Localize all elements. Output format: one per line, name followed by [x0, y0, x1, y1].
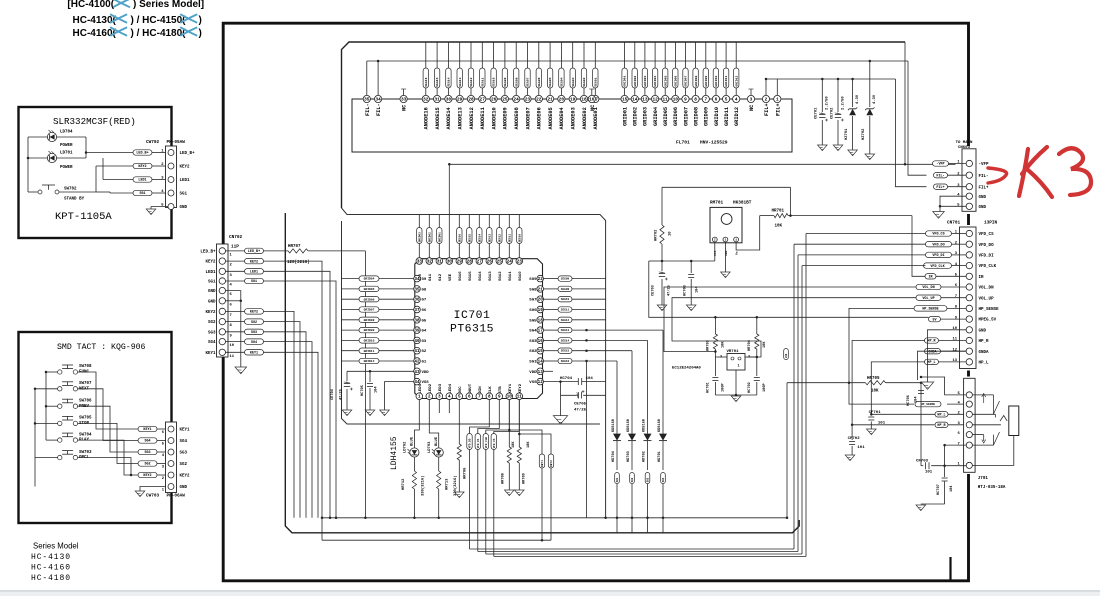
svg-text:SEG02: SEG02: [582, 77, 586, 86]
wire KEY2 pin: [518, 400, 520, 448]
wire: [157, 428, 168, 430]
net label LED1: [245, 269, 264, 274]
svg-text:CE703: CE703: [652, 285, 656, 296]
net label FIL+: [934, 184, 948, 189]
wire: [544, 298, 559, 300]
wire CE705 row: [561, 394, 577, 396]
ground: [916, 505, 926, 511]
wire LED_B+ net: [264, 250, 289, 252]
wire VOL_UP: [672, 298, 916, 357]
wire label col: [418, 215, 420, 228]
net label VFD_DO: [926, 242, 952, 247]
wire jack pin5: [921, 377, 966, 395]
pin 2 IC701: [426, 393, 433, 400]
svg-text:S01: S01: [616, 477, 619, 482]
wire jack pin6: [972, 434, 983, 436]
ground: [921, 382, 933, 389]
svg-text:28: 28: [467, 260, 473, 265]
svg-text:37: 37: [414, 308, 420, 313]
svg-text:31: 31: [434, 98, 440, 103]
svg-text:HR704: HR704: [748, 339, 752, 351]
junction: [448, 163, 451, 166]
svg-text:11: 11: [230, 355, 235, 359]
svg-text:104: 104: [950, 485, 954, 492]
svg-text:GRID08: GRID08: [364, 319, 375, 322]
svg-text:13: 13: [538, 370, 544, 375]
svg-text:10: 10: [669, 231, 673, 236]
net label S03: [645, 473, 650, 484]
svg-text:NEXT: NEXT: [79, 387, 90, 391]
diode KDS160 HD703: [631, 351, 633, 434]
svg-text:GRID03: GRID03: [643, 107, 649, 126]
wire: [226, 270, 245, 272]
svg-text:29: 29: [457, 98, 463, 103]
svg-text:HR707: HR707: [288, 245, 301, 249]
pin 7 J701: [966, 442, 972, 448]
svg-text:SG10: SG10: [519, 271, 523, 281]
svg-text:HC-4130: HC-4130: [31, 553, 71, 562]
svg-text:GRID07: GRID07: [683, 107, 689, 126]
ground: [867, 429, 877, 435]
wire: [785, 349, 787, 360]
svg-text:SG2: SG2: [144, 463, 150, 467]
net label GRID12: [734, 68, 739, 88]
svg-text:SEG14: SEG14: [447, 77, 451, 86]
svg-text:18: 18: [538, 318, 544, 323]
svg-text:2.2/50: 2.2/50: [825, 96, 830, 110]
wire anode col ANODE10: [493, 42, 495, 68]
wire: [920, 383, 922, 466]
svg-text:HP_L: HP_L: [937, 414, 945, 418]
junction: [321, 517, 324, 520]
svg-text:19: 19: [538, 308, 544, 313]
svg-text:KEY2: KEY2: [250, 311, 258, 315]
svg-text:HP_SENSE: HP_SENSE: [921, 403, 936, 406]
svg-text:KEY2: KEY2: [205, 261, 216, 265]
pin 7 CN701: [966, 295, 972, 301]
svg-text:CE705: CE705: [574, 403, 587, 407]
wire: [226, 260, 245, 262]
pin 9 IC701: [496, 393, 503, 400]
pin 35 FL701: [363, 95, 370, 102]
svg-text:GRID11: GRID11: [364, 350, 375, 353]
wire anode col ANODE13: [459, 42, 461, 68]
svg-text:GND: GND: [979, 196, 987, 200]
svg-text:27: 27: [477, 260, 483, 265]
wire CN701 gnd: [928, 330, 967, 382]
svg-text:CE702: CE702: [831, 107, 835, 119]
svg-text:100P: 100P: [763, 383, 767, 392]
svg-text:GND: GND: [979, 206, 987, 210]
svg-text:GRID12: GRID12: [734, 76, 738, 87]
capacitor HC707: [942, 477, 948, 479]
svg-text:SG4: SG4: [529, 330, 537, 334]
svg-text:5: 5: [458, 395, 461, 400]
svg-text:32: 32: [423, 98, 429, 103]
LED LD704: [47, 132, 56, 141]
svg-text:SW703: SW703: [79, 451, 92, 455]
svg-text:SG2: SG2: [251, 321, 257, 325]
svg-text:SG16: SG16: [459, 271, 463, 281]
connector CW702: [166, 146, 177, 208]
pin 1 CN603: [966, 160, 972, 166]
svg-text:) Series Model]: ) Series Model]: [133, 0, 204, 10]
pin Vcc RM701: [712, 237, 717, 242]
resistor HR704: [756, 317, 758, 334]
wire VSS left: [385, 382, 414, 410]
pin 1 CW702: [168, 150, 174, 156]
svg-text:GRID06: GRID06: [674, 76, 678, 87]
pin 1 CW703: [168, 484, 174, 490]
svg-text:VFD_DO: VFD_DO: [469, 438, 472, 448]
wire: [947, 307, 966, 309]
ground: [845, 455, 855, 461]
svg-text:FIL-: FIL-: [936, 174, 944, 178]
svg-text:CW702: CW702: [146, 140, 160, 145]
svg-text:SG1: SG1: [139, 192, 145, 196]
svg-text:J701: J701: [978, 477, 989, 481]
wire pin5 gnd: [151, 206, 168, 208]
svg-text:G5: G5: [422, 319, 427, 323]
wire: [952, 233, 967, 235]
wire data VFD_CS: [494, 400, 520, 434]
junction: [27, 157, 30, 160]
resistor HR703: [714, 317, 716, 334]
wire Vo: [736, 216, 760, 250]
wire: [952, 243, 967, 245]
wire: [616, 484, 618, 533]
svg-text:LED_B+: LED_B+: [136, 152, 148, 156]
svg-text:KEY2: KEY2: [180, 166, 191, 170]
svg-text:PH-06AW: PH-06AW: [167, 494, 186, 499]
svg-text:4.3V: 4.3V: [873, 94, 877, 104]
wire anode col ANODE16: [425, 42, 427, 68]
svg-text:GRID01: GRID01: [622, 107, 628, 126]
svg-text:GRID02: GRID02: [633, 76, 637, 87]
wire grid col GRID02: [634, 42, 636, 68]
svg-text:SG11: SG11: [509, 271, 513, 281]
pin 9 CN701: [966, 316, 972, 322]
pin 6 IC701: [466, 393, 473, 400]
svg-text:FIL+: FIL+: [936, 186, 944, 190]
svg-text:) / HC-4180(: ) / HC-4180(: [131, 28, 187, 39]
net label SEG09: [502, 68, 507, 88]
ground: [833, 145, 843, 151]
junction: [377, 60, 380, 63]
svg-text:KDS160: KDS160: [612, 419, 616, 432]
switch SW706: [58, 404, 62, 408]
wire bus LED_B+: [322, 517, 787, 519]
pin 26 FL701: [490, 95, 497, 102]
svg-text:100P: 100P: [722, 383, 726, 392]
svg-text:HD702: HD702: [642, 451, 646, 462]
wire label col: [498, 215, 500, 228]
svg-text:VFD_CLK: VFD_CLK: [930, 265, 945, 269]
jack contact: [1000, 416, 1007, 422]
wire VDD right: [544, 370, 554, 372]
wire VSS gnd: [560, 382, 562, 416]
svg-text:VEE: VEE: [449, 273, 453, 281]
pin Vo RM701: [734, 237, 739, 242]
svg-text:SG9: SG9: [529, 278, 537, 282]
wire grid col GRID03: [644, 42, 646, 68]
ground: [505, 490, 515, 496]
red K: [1019, 149, 1028, 196]
net label SEG15: [558, 348, 572, 353]
zener HZ701: [852, 79, 854, 107]
svg-text:GRID07: GRID07: [684, 76, 688, 87]
net label KEY2: [245, 258, 264, 263]
pin 32 FL701: [422, 95, 429, 102]
svg-text:104: 104: [375, 386, 379, 393]
wire grid col GRID04: [654, 42, 656, 68]
pin 23 FL701: [524, 95, 531, 102]
svg-text:OPCL: OPCL: [79, 456, 90, 460]
net label S04: [661, 473, 666, 484]
net label GRID06: [673, 68, 678, 88]
svg-text:SW708: SW708: [79, 365, 92, 369]
svg-text:SG12: SG12: [499, 271, 503, 281]
net label L50: [784, 349, 789, 360]
ground: [933, 212, 945, 219]
pin 6 FL701: [712, 95, 719, 102]
wire HR705 feed: [786, 383, 788, 518]
pin 11 CN701: [966, 337, 972, 343]
net label GRID10: [359, 338, 379, 343]
wire SG1 drop: [264, 281, 337, 518]
svg-text:SG4: SG4: [180, 440, 188, 444]
svg-text:ANODE15: ANODE15: [435, 107, 441, 129]
wire: [586, 361, 588, 518]
svg-text:VFD_CS: VFD_CS: [932, 233, 944, 237]
svg-text:VFD_DI: VFD_DI: [932, 254, 944, 258]
svg-text:HR708: HR708: [502, 473, 506, 484]
svg-text:30: 30: [447, 260, 453, 265]
junction: [870, 413, 873, 416]
net label SEG16: [457, 228, 462, 244]
wire: [226, 250, 245, 252]
svg-text:GRID08: GRID08: [693, 107, 699, 126]
svg-text:HR701: HR701: [772, 210, 785, 214]
wire HC707 v: [944, 445, 946, 477]
svg-text:GRID01: GRID01: [623, 76, 627, 87]
junction: [786, 517, 789, 520]
net label SEG05: [547, 68, 552, 88]
svg-text:G4: G4: [422, 330, 427, 334]
connector CN603: [962, 149, 976, 212]
wire jack pin2 tip: [972, 413, 995, 415]
net label GRID09: [703, 68, 708, 88]
junction: [437, 517, 440, 520]
svg-text:6: 6: [468, 395, 471, 400]
svg-text:SG13: SG13: [489, 271, 493, 281]
svg-text:VDD: VDD: [529, 371, 537, 375]
svg-text:L50: L50: [785, 353, 788, 358]
svg-text:GRID10: GRID10: [714, 107, 720, 126]
wire: [952, 254, 967, 256]
svg-text:SG1: SG1: [208, 281, 216, 285]
net label KEY2: [245, 309, 264, 314]
net label SEG12: [558, 317, 572, 322]
net label SEG08: [558, 286, 572, 291]
net label GRID04: [359, 276, 379, 281]
junction: [920, 381, 923, 384]
pin 35 IC701: [414, 286, 421, 293]
svg-text:25: 25: [497, 260, 503, 265]
wire: [948, 413, 966, 415]
pin 41 IC701: [414, 347, 421, 354]
wire: [157, 463, 168, 465]
pin 2 CN702: [219, 258, 225, 264]
svg-text:GRID02: GRID02: [633, 107, 639, 126]
connector J701: [964, 378, 976, 472]
svg-text:STB: STB: [499, 386, 503, 394]
junction: [413, 517, 416, 520]
pin 5 CW702: [168, 204, 174, 210]
wire CN603 gnd: [940, 196, 966, 206]
pin 4 CN603: [966, 193, 972, 199]
junction: [789, 214, 792, 217]
svg-text:SEG09: SEG09: [503, 77, 507, 86]
wire key bus B: [34, 389, 36, 487]
wire jack pin3: [972, 424, 1001, 426]
svg-text:SG6: SG6: [529, 309, 537, 313]
jack switch arrow: [982, 394, 986, 404]
net label VFD_CLK: [483, 434, 488, 450]
svg-text:26: 26: [491, 98, 497, 103]
svg-text:SEG13: SEG13: [458, 77, 462, 86]
wire: [544, 360, 559, 362]
svg-text:10: 10: [952, 327, 957, 331]
net label GRID03: [417, 228, 422, 244]
wire KEY1 pin: [508, 400, 510, 448]
pin 5 CN701: [966, 273, 972, 279]
wire key net drop: [264, 311, 295, 517]
svg-text:MPEG_5V: MPEG_5V: [979, 319, 997, 323]
pin 10 CN701: [966, 327, 972, 333]
svg-text:G8: G8: [422, 288, 427, 292]
wire data VFD_DI: [478, 400, 500, 434]
ground: [365, 410, 375, 416]
junction: [240, 300, 243, 303]
wire HR705 line: [787, 382, 865, 384]
capacitor HC706: [918, 390, 924, 392]
svg-text:21: 21: [547, 98, 553, 103]
svg-text:LED_B+: LED_B+: [180, 152, 196, 156]
red arrow: [988, 168, 1007, 183]
net label GRID11: [723, 68, 728, 88]
svg-text:G12: G12: [439, 273, 443, 281]
wire 5V node: [662, 260, 715, 262]
svg-text:1: 1: [735, 239, 737, 242]
svg-text:Vo: Vo: [736, 251, 739, 255]
pin 29 FL701: [456, 95, 463, 102]
svg-text:30: 30: [446, 98, 452, 103]
pin 2 FL701: [762, 95, 769, 102]
svg-text:HD704: HD704: [612, 450, 616, 462]
ic IC701 body: [415, 259, 543, 399]
switch SW705: [58, 421, 62, 425]
net label 5V: [929, 316, 941, 321]
svg-text:35: 35: [364, 98, 370, 103]
svg-text:2.2/50: 2.2/50: [841, 96, 846, 110]
wire grid col GRID09: [705, 42, 707, 68]
wire label col: [428, 215, 430, 228]
net label IR: [925, 274, 936, 279]
pin 8 CN702: [219, 318, 225, 324]
net label VFD_DI: [926, 252, 952, 257]
wire LED1 pin: [414, 400, 419, 448]
svg-text:VFD_DO: VFD_DO: [932, 243, 944, 247]
svg-text:17: 17: [538, 329, 544, 334]
net label SEG13: [558, 327, 572, 332]
capacitor CE701: [821, 79, 823, 112]
wire NC stub 3: [750, 89, 752, 95]
svg-text:SEG15: SEG15: [468, 234, 471, 243]
net label SEG10: [491, 68, 496, 88]
svg-text:CF701: CF701: [869, 411, 882, 415]
svg-text:SEG11: SEG11: [508, 234, 511, 243]
svg-text:CF703: CF703: [916, 460, 929, 464]
net label GRID07: [359, 307, 379, 312]
wire KEY2 drop: [264, 261, 323, 540]
svg-text:GRID04: GRID04: [364, 278, 375, 281]
net label VFD_CLK: [924, 263, 952, 268]
svg-text:38: 38: [414, 318, 420, 323]
svg-text:SEG16: SEG16: [561, 360, 570, 363]
svg-text:SEG15: SEG15: [561, 350, 570, 353]
pin 3 J701: [966, 422, 972, 428]
svg-text:CN702: CN702: [229, 235, 243, 240]
pin 2 CW702: [168, 163, 174, 169]
pin 3 CN603: [966, 184, 972, 190]
wire FIL+ right: [896, 79, 927, 187]
pin 6 CN702: [219, 298, 225, 304]
svg-text:10K: 10K: [763, 341, 767, 348]
svg-text:G3: G3: [422, 340, 427, 344]
svg-text:23: 23: [517, 260, 523, 265]
svg-text:KEY1: KEY1: [180, 429, 191, 433]
net label HP_SENSE: [914, 306, 947, 311]
wire anode col ANODE01: [594, 42, 596, 68]
svg-text:ANODE11: ANODE11: [480, 107, 486, 129]
svg-text:25: 25: [502, 98, 508, 103]
svg-text:FL701: FL701: [676, 140, 690, 146]
svg-text:HC704: HC704: [560, 377, 573, 381]
svg-text:Series Model: Series Model: [33, 542, 79, 551]
wire VSS right: [544, 381, 579, 383]
board outline left: [285, 213, 799, 533]
svg-text:SEG03: SEG03: [571, 77, 575, 86]
pin 14 FL701: [631, 95, 638, 102]
pin 31 IC701: [436, 258, 443, 265]
net label VFD_DO: [467, 434, 472, 450]
net label KEY2v: [548, 454, 553, 468]
net label VOL_UP: [916, 295, 941, 300]
ground: [865, 154, 875, 160]
net label GRID06: [359, 297, 379, 302]
switch SW703: [58, 455, 62, 459]
net label SEG04: [559, 68, 564, 88]
net label SEG06: [536, 68, 541, 88]
pin 29 IC701: [456, 258, 463, 265]
diode KDS160 HD704: [616, 361, 618, 434]
pin 37 IC701: [414, 306, 421, 313]
svg-text:STOP: STOP: [79, 422, 90, 426]
svg-text:22: 22: [536, 98, 542, 103]
svg-text:HC701: HC701: [707, 382, 711, 393]
junction: [756, 316, 759, 319]
